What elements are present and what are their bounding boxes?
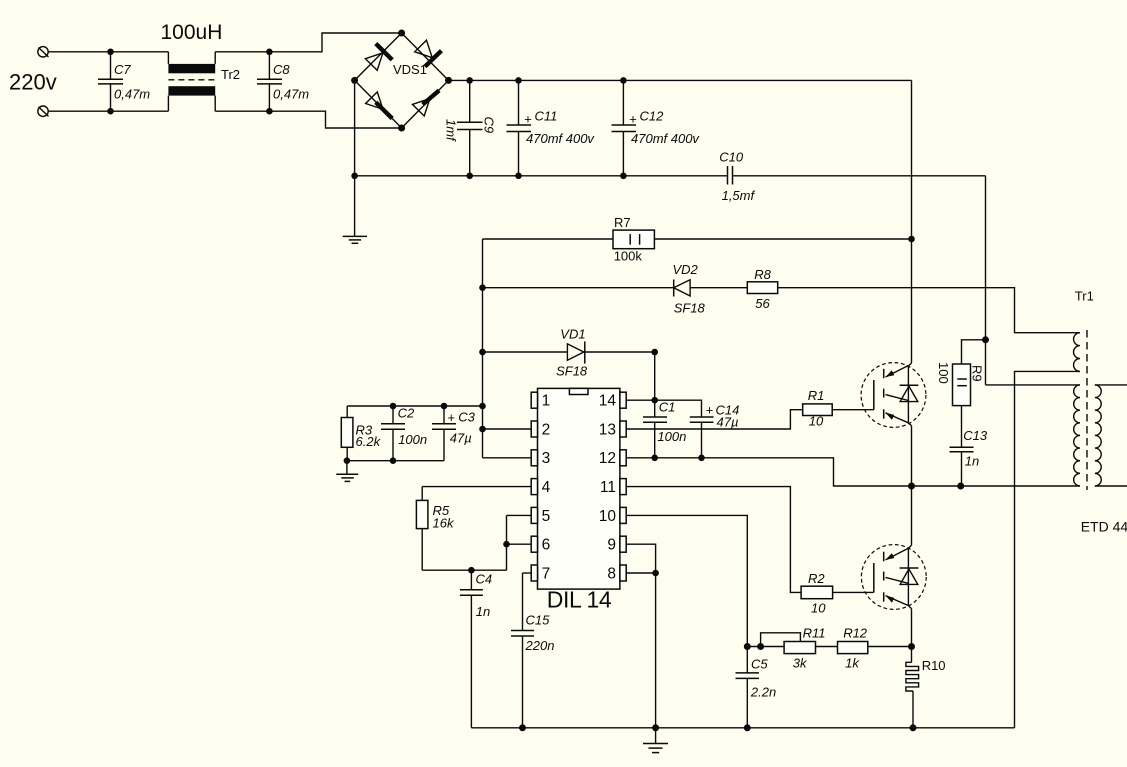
ground left [336, 461, 358, 482]
svg-text:Tr1: Tr1 [1075, 289, 1094, 304]
pin 6 [531, 536, 550, 553]
pin 11 [600, 479, 626, 496]
node bus R10 [910, 724, 917, 731]
svg-text:VDS1: VDS1 [393, 62, 427, 77]
wire bottom input [48, 110, 168, 112]
wire analog gnd row [347, 460, 444, 462]
svg-text:VD2: VD2 [673, 262, 699, 277]
node bus C5 [744, 724, 751, 731]
wire R7 row [483, 238, 614, 240]
svg-text:6.2k: 6.2k [356, 434, 382, 449]
node C1 pin12 [651, 455, 658, 462]
svg-text:SF18: SF18 [556, 364, 588, 379]
svg-text:C5: C5 [751, 657, 768, 672]
capacitor C2 [381, 403, 427, 461]
pin 9 [607, 536, 626, 553]
transistor Q2 [861, 545, 926, 610]
terminal X1 [38, 47, 49, 57]
node pin8 [652, 570, 659, 577]
wire top input [48, 51, 168, 53]
svg-text:7: 7 [542, 565, 551, 582]
bridge VDS1 frame [355, 33, 449, 128]
wire R11 to R12 [816, 646, 838, 648]
diode VD1 [556, 327, 588, 379]
wire VD2 to R8 [690, 287, 747, 289]
node bridge right [445, 77, 452, 84]
IC U1 body [538, 388, 620, 612]
node C8 top [266, 49, 273, 56]
svg-text:R11: R11 [803, 626, 826, 641]
ground bridge [343, 236, 367, 243]
wire VD1 row [483, 351, 568, 353]
pin 7 [531, 565, 550, 582]
capacitor C1 [643, 352, 686, 458]
svg-text:+: + [629, 112, 637, 127]
svg-text:1n: 1n [965, 454, 979, 469]
capacitor C15 [511, 573, 554, 728]
svg-text:47µ: 47µ [717, 415, 739, 430]
wire pin4 [422, 486, 531, 488]
transistor Q1 [861, 363, 926, 428]
wire Q2 drain [911, 486, 913, 545]
wire pin5 pin6 link [506, 515, 508, 570]
svg-text:220v: 220v [9, 70, 57, 95]
node bus gnd [652, 724, 659, 731]
svg-text:1k: 1k [845, 656, 860, 671]
node mid rail Q1 source [908, 483, 915, 490]
svg-text:VD1: VD1 [560, 327, 585, 342]
wire pin12 to mid rail [626, 458, 1080, 486]
resistor R7 [613, 215, 654, 264]
svg-text:2: 2 [542, 421, 551, 438]
pin 2 [531, 421, 550, 438]
Tr1 secondary winding [1095, 385, 1101, 486]
capacitor C10 [719, 150, 755, 204]
wire Q1 source [911, 426, 913, 486]
diode VDS1 bottom-right [412, 90, 439, 116]
svg-text:11: 11 [600, 479, 616, 496]
wire dc- bus right of C10 [733, 175, 986, 177]
wire Tr2 to bridge bottom [215, 111, 401, 128]
svg-text:10: 10 [809, 414, 824, 429]
wire R1 to Q1 gate [832, 409, 874, 411]
svg-text:47µ: 47µ [450, 431, 472, 446]
pin 4 [531, 479, 550, 496]
Tr1 core [1086, 330, 1088, 490]
svg-text:1,5mf: 1,5mf [722, 188, 756, 203]
svg-text:R12: R12 [843, 626, 868, 641]
wire C5 to R11 [747, 646, 784, 648]
wire R11 wiper [761, 633, 801, 647]
inductor Tr2 [168, 52, 240, 111]
node pin2 [479, 426, 486, 433]
svg-text:10: 10 [811, 601, 826, 616]
capacitor C3 [432, 403, 476, 461]
node bridge top [398, 30, 405, 37]
node VD1 left [479, 349, 486, 356]
diode VDS1 bottom-left [366, 92, 393, 119]
node mid rail C13 [957, 483, 964, 490]
node C7 bottom [107, 108, 114, 115]
capacitor C7 [98, 52, 150, 111]
pin 5 [531, 507, 550, 524]
node bridge bottom [398, 125, 405, 132]
svg-text:DIL 14: DIL 14 [547, 587, 612, 613]
svg-text:6: 6 [542, 537, 551, 554]
pin 8 [607, 565, 626, 582]
wire R12 to Q2 source [868, 646, 912, 648]
node pin14 C1 [651, 397, 658, 404]
wire pin10 down [626, 515, 747, 646]
wire dc- bus [355, 175, 728, 177]
svg-text:C3: C3 [458, 410, 475, 425]
svg-text:R10: R10 [922, 658, 946, 673]
pin 13 [599, 421, 626, 438]
pin 14 [599, 392, 626, 409]
svg-text:+: + [706, 403, 714, 418]
node C14 pin12 [698, 455, 705, 462]
wire pin13 to R1 [626, 410, 803, 429]
node bus left [351, 173, 358, 180]
svg-text:SF18: SF18 [674, 301, 706, 316]
resistor R1 [803, 388, 833, 429]
svg-text:10: 10 [599, 508, 617, 525]
wire bridge left to gnd bus [354, 80, 356, 236]
svg-text:ETD 44: ETD 44 [1081, 518, 1127, 534]
node C7 top [107, 49, 114, 56]
svg-text:3: 3 [542, 450, 551, 467]
node Q2 source row [908, 643, 915, 650]
svg-text:13: 13 [599, 421, 616, 438]
wire Tr2 to bridge top [215, 33, 401, 52]
node pin6 link [503, 541, 510, 548]
wire VD2 row left [483, 287, 674, 289]
diode VD2 [673, 262, 706, 316]
svg-text:+: + [524, 112, 532, 127]
resistor R10 [906, 647, 946, 728]
svg-text:100uH: 100uH [161, 21, 223, 44]
wire secondary bottom [1095, 485, 1127, 487]
wire C10 rail to R9 node [985, 176, 987, 385]
wire pin3 [483, 457, 532, 459]
wire dc+ bus top [449, 79, 912, 81]
wire pin7 [523, 572, 532, 574]
svg-text:C7: C7 [114, 62, 131, 77]
node gnd row R3 [344, 457, 351, 464]
svg-text:C8: C8 [273, 62, 290, 77]
svg-text:470mf 400v: 470mf 400v [526, 131, 595, 146]
svg-text:100: 100 [936, 362, 951, 384]
svg-text:C4: C4 [476, 572, 493, 587]
wire Vref rail [347, 405, 482, 407]
svg-text:C13: C13 [963, 428, 988, 443]
svg-text:R1: R1 [808, 388, 825, 403]
capacitor C9 [444, 77, 497, 179]
svg-text:3k: 3k [793, 656, 808, 671]
resistor R11 [784, 626, 825, 671]
capacitor C4 [460, 570, 492, 728]
pin 12 [599, 450, 626, 467]
resistor R8 [747, 267, 777, 311]
capacitor C13 [950, 406, 988, 486]
resistor R12 [838, 626, 868, 671]
svg-text:470mf 400v: 470mf 400v [631, 131, 700, 146]
wire R2 to Q2 gate [833, 591, 874, 593]
wire VD1 to C1 node [585, 351, 655, 353]
pin 10 [599, 507, 626, 524]
resistor R2 [801, 571, 833, 616]
wire Q2 source [911, 609, 913, 647]
svg-text:8: 8 [607, 565, 616, 582]
svg-text:1: 1 [542, 393, 551, 410]
wire pin11 to R2 [626, 487, 801, 593]
svg-text:C2: C2 [398, 406, 415, 421]
node VD2 row left [479, 284, 486, 291]
diode VDS1 top-left [365, 44, 392, 71]
wire ground bus bottom [471, 727, 1014, 729]
node C5 top [744, 643, 751, 650]
wire R8 to Tr1 top [778, 288, 1080, 333]
capacitor C11 [507, 77, 596, 179]
wire pin8 [626, 572, 655, 574]
wire R9 node to Tr1 lower top [986, 384, 1081, 386]
pin 1 [531, 392, 550, 409]
node R11 wiper tie [757, 643, 764, 650]
wire pin2 [483, 428, 532, 430]
svg-text:1mf: 1mf [444, 119, 459, 142]
svg-text:+: + [447, 410, 455, 425]
ground main [643, 728, 668, 753]
svg-text:5: 5 [542, 508, 551, 525]
node bus C15 [519, 724, 526, 731]
svg-text:C10: C10 [719, 150, 744, 165]
svg-text:R8: R8 [754, 267, 771, 282]
svg-text:C15: C15 [526, 613, 551, 628]
svg-text:4: 4 [542, 479, 551, 496]
svg-text:C9: C9 [482, 117, 497, 134]
capacitor C8 [257, 52, 309, 111]
node R7 drain rail [908, 236, 915, 243]
resistor R9 [936, 340, 986, 406]
capacitor C5 [736, 647, 777, 728]
capacitor C14 [690, 403, 740, 458]
capacitor C12 [612, 77, 701, 179]
wire R7 to drain rail [654, 238, 911, 240]
terminal X2 [38, 106, 49, 116]
pin 3 [531, 450, 550, 467]
node C8 bottom [266, 108, 273, 115]
svg-text:C12: C12 [640, 109, 665, 124]
Tr1 primary lower winding [1074, 385, 1080, 486]
resistor R5 [416, 487, 455, 571]
svg-text:0,47m: 0,47m [114, 87, 150, 102]
node C4 top [468, 567, 475, 574]
svg-text:56: 56 [755, 296, 770, 311]
node R9 top [982, 336, 989, 343]
node bridge left [351, 77, 358, 84]
wire pin6 [507, 543, 532, 545]
svg-text:16k: 16k [433, 516, 455, 531]
svg-text:Tr2: Tr2 [221, 67, 240, 82]
svg-text:R7: R7 [614, 215, 631, 230]
wire R5 bottom row [422, 569, 506, 571]
wire secondary top [1095, 384, 1127, 386]
svg-text:1n: 1n [476, 604, 490, 619]
Tr1 primary upper winding [1074, 333, 1080, 372]
svg-text:14: 14 [599, 393, 617, 410]
svg-text:220n: 220n [525, 638, 555, 653]
wire Tr1 upper bottom to gnd bus [1015, 371, 1081, 727]
svg-text:0,47m: 0,47m [273, 87, 309, 102]
svg-text:2.2n: 2.2n [750, 685, 776, 700]
svg-text:R9: R9 [970, 365, 985, 382]
svg-text:C11: C11 [535, 109, 558, 124]
node VD1 right [651, 349, 658, 356]
wire left column [482, 239, 484, 458]
svg-text:9: 9 [607, 537, 616, 554]
svg-text:100n: 100n [657, 429, 686, 444]
node gnd row C2 [390, 457, 397, 464]
diode VDS1 top-right [415, 40, 442, 66]
svg-text:R2: R2 [808, 571, 825, 586]
wire pin9 down [626, 544, 655, 728]
svg-text:12: 12 [599, 450, 616, 467]
svg-text:100n: 100n [398, 432, 427, 447]
wire pin14 [626, 400, 701, 417]
resistor R3 [341, 406, 381, 461]
svg-text:100k: 100k [614, 249, 643, 264]
node C2 C3 rail [479, 403, 486, 410]
svg-text:C1: C1 [659, 400, 676, 415]
wire pin5 [507, 514, 532, 516]
wire Q1 drain rail [911, 80, 913, 363]
